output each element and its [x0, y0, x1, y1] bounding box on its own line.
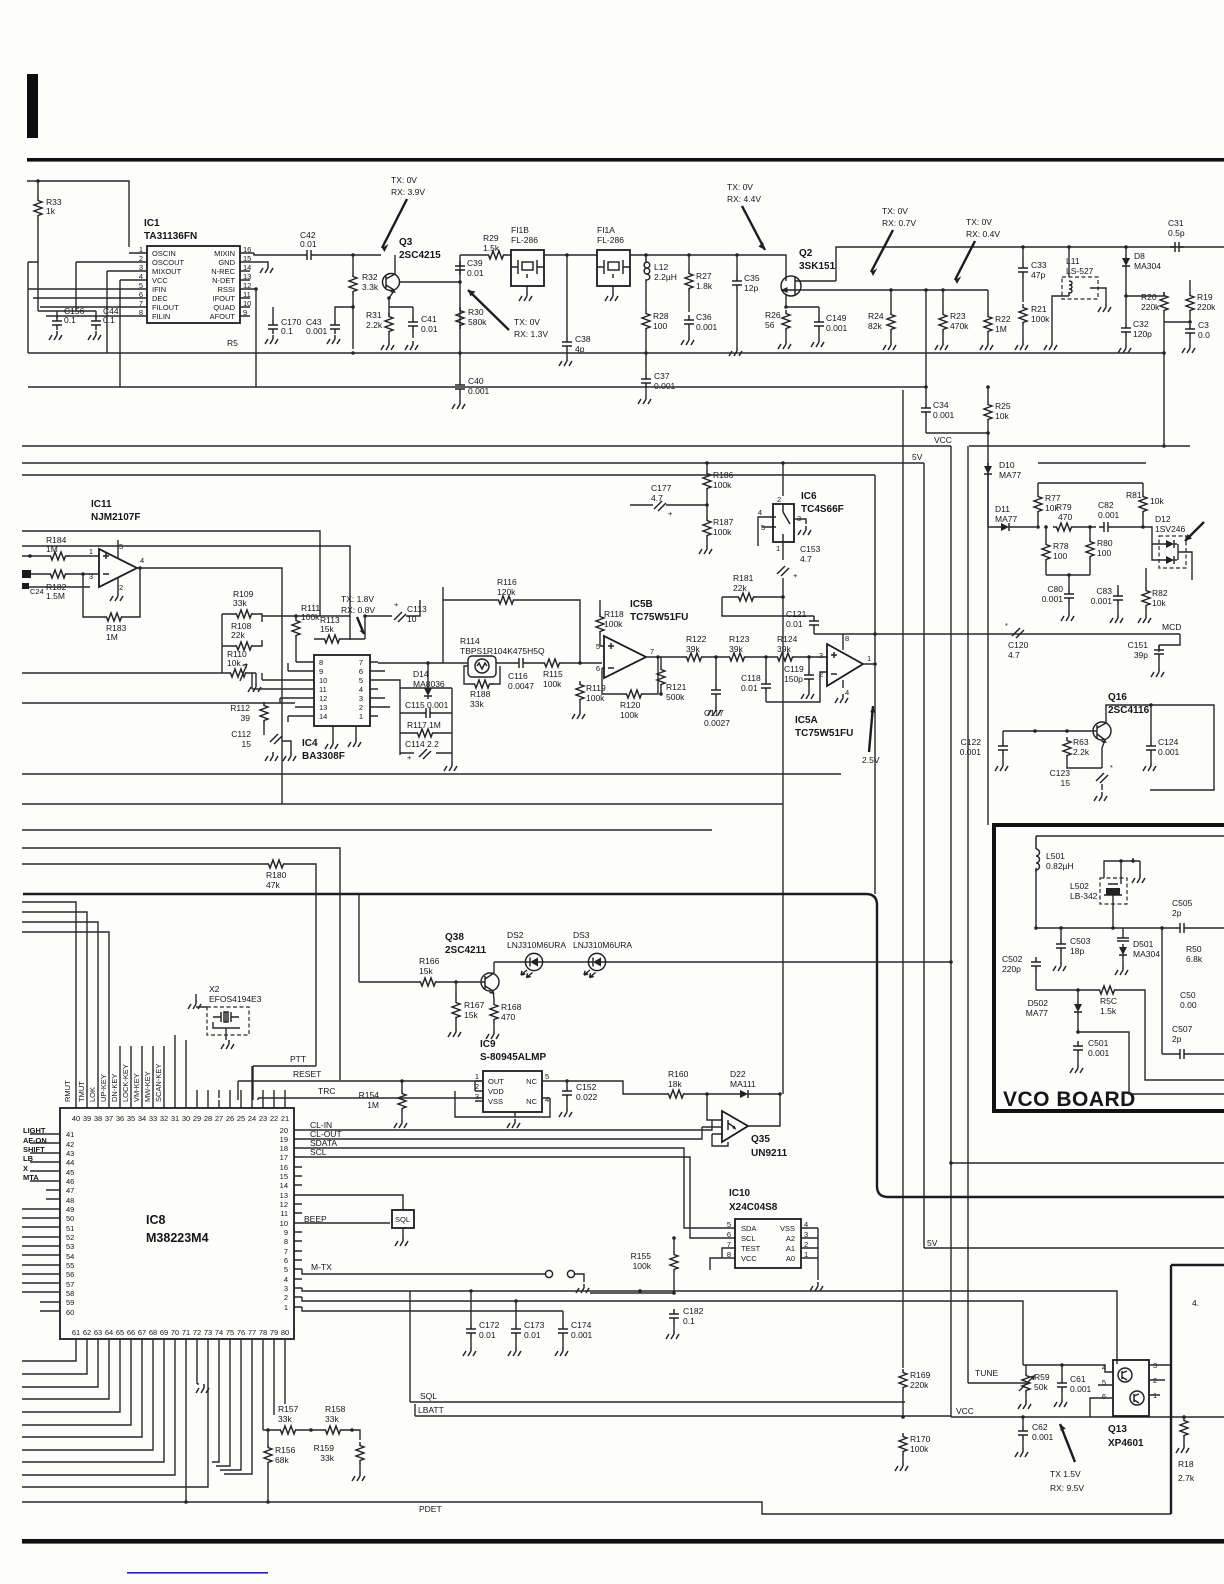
svg-text:R114: R114: [460, 636, 480, 646]
svg-text:13: 13: [280, 1191, 288, 1200]
wire IC9 out to R160: [567, 1081, 665, 1094]
svg-text:DS3: DS3: [573, 930, 590, 940]
capacitor C38: [566, 255, 568, 337]
svg-text:100k: 100k: [620, 710, 639, 720]
svg-text:2SC4215: 2SC4215: [399, 250, 441, 261]
resistor R186: [703, 470, 711, 492]
svg-text:70: 70: [171, 1328, 179, 1337]
svg-text:44: 44: [66, 1158, 74, 1167]
svg-text:4: 4: [359, 685, 363, 694]
svg-text:50k: 50k: [1034, 1382, 1048, 1392]
trimmer R59: [1022, 1372, 1030, 1394]
svg-text:LB: LB: [23, 1154, 34, 1163]
svg-text:D22: D22: [730, 1069, 746, 1079]
svg-text:3: 3: [819, 651, 823, 660]
svg-text:52: 52: [66, 1233, 74, 1242]
svg-text:Q35: Q35: [751, 1134, 770, 1145]
board edge bottom right: [1171, 1265, 1224, 1514]
capacitor C61: [1057, 1378, 1067, 1392]
svg-text:C123: C123: [1050, 768, 1071, 778]
svg-text:56: 56: [765, 320, 775, 330]
capacitor C62: [1018, 1426, 1028, 1440]
top rule: [27, 158, 1224, 162]
svg-text:22k: 22k: [231, 630, 245, 640]
capacitor C501: [1073, 1041, 1083, 1055]
capacitor C123: [1096, 773, 1108, 783]
svg-text:M-TX: M-TX: [311, 1262, 332, 1272]
ground: [49, 331, 62, 340]
svg-text:65: 65: [116, 1328, 124, 1337]
svg-text:21: 21: [281, 1114, 289, 1123]
IC1 right pin stubs: [240, 253, 262, 316]
svg-text:60: 60: [66, 1308, 74, 1317]
capacitor C35: [732, 276, 742, 290]
capacitor C43: [330, 320, 340, 334]
capacitor C149: [814, 317, 824, 331]
svg-text:0.0047: 0.0047: [508, 681, 534, 691]
svg-text:54: 54: [66, 1252, 74, 1261]
svg-text:OUT: OUT: [488, 1077, 504, 1086]
IC4 left pin wires: [252, 662, 314, 716]
capacitor C31: [1170, 242, 1184, 252]
svg-text:5: 5: [359, 676, 363, 685]
svg-text:LBATT: LBATT: [418, 1405, 444, 1415]
svg-text:NC: NC: [526, 1097, 537, 1106]
svg-text:C24: C24: [30, 587, 44, 596]
resistor R122: [683, 653, 705, 661]
svg-text:C503: C503: [1070, 936, 1091, 946]
svg-text:Q2: Q2: [799, 248, 813, 259]
vertical rail x924: [923, 463, 925, 1248]
svg-text:4: 4: [284, 1275, 288, 1284]
capacitor C156: [52, 316, 62, 330]
svg-text:0.01: 0.01: [786, 619, 803, 629]
svg-text:D502: D502: [1028, 998, 1049, 1008]
svg-text:R124: R124: [777, 634, 798, 644]
svg-text:4.7: 4.7: [800, 554, 812, 564]
svg-text:100k: 100k: [301, 612, 320, 622]
svg-text:RX: 0.7V: RX: 0.7V: [882, 218, 916, 228]
resistor R77: [1034, 493, 1042, 515]
resistor R33: [34, 197, 42, 219]
diode D22 MA111: [737, 1090, 751, 1098]
node input blobs: [22, 570, 31, 578]
svg-text:18p: 18p: [1070, 946, 1084, 956]
svg-text:10k: 10k: [227, 658, 241, 668]
svg-text:C82: C82: [1098, 500, 1114, 510]
svg-text:29: 29: [193, 1114, 201, 1123]
svg-text:120k: 120k: [497, 587, 516, 597]
svg-text:C40: C40: [468, 376, 484, 386]
svg-text:TX: 0V: TX: 0V: [727, 182, 753, 192]
svg-text:5: 5: [596, 642, 600, 651]
svg-text:VM-KEY: VM-KEY: [132, 1073, 141, 1102]
vertical rail x903: [902, 390, 904, 1368]
svg-text:X2: X2: [209, 984, 220, 994]
svg-text:37: 37: [105, 1114, 113, 1123]
wire to C507: [1078, 1032, 1224, 1094]
svg-text:39: 39: [83, 1114, 91, 1123]
svg-text:C80: C80: [1047, 584, 1063, 594]
svg-text:AF-ON: AF-ON: [23, 1136, 47, 1145]
svg-text:MCD: MCD: [1162, 622, 1181, 632]
capacitor C32: [1121, 323, 1131, 337]
svg-text:MA111: MA111: [730, 1079, 756, 1089]
svg-text:QUAD: QUAD: [213, 303, 235, 312]
svg-text:C507: C507: [1172, 1024, 1193, 1034]
black margin bar top-left: [27, 74, 38, 138]
svg-text:58: 58: [66, 1289, 74, 1298]
svg-text:EFOS4194E3: EFOS4194E3: [209, 994, 262, 1004]
svg-text:7: 7: [650, 647, 654, 656]
svg-text:69: 69: [160, 1328, 168, 1337]
resistor R167: [452, 999, 460, 1021]
resistor R81: [1139, 493, 1147, 515]
bus y864 with R180: [22, 864, 316, 1066]
inductor L12: [644, 255, 650, 284]
svg-text:R27: R27: [696, 271, 712, 281]
svg-text:67: 67: [138, 1328, 146, 1337]
svg-text:15: 15: [242, 739, 252, 749]
svg-text:10k: 10k: [1150, 496, 1164, 506]
svg-text:SCL: SCL: [741, 1234, 756, 1243]
svg-text:57: 57: [66, 1280, 74, 1289]
svg-text:2p: 2p: [1172, 1034, 1182, 1044]
svg-text:GND: GND: [218, 258, 235, 267]
capacitor C39: [455, 261, 465, 275]
svg-text:FI1A: FI1A: [597, 225, 615, 235]
svg-text:43: 43: [66, 1149, 74, 1158]
svg-text:*: *: [1110, 763, 1113, 772]
svg-text:C62: C62: [1032, 1422, 1048, 1432]
svg-text:34: 34: [138, 1114, 146, 1123]
svg-text:62: 62: [83, 1328, 91, 1337]
IC8 top pin stubs: [76, 1100, 285, 1108]
svg-text:AFOUT: AFOUT: [210, 312, 236, 321]
svg-text:100k: 100k: [543, 679, 562, 689]
svg-text:M38223M4: M38223M4: [146, 1231, 209, 1245]
svg-text:R32: R32: [362, 272, 378, 282]
svg-text:15k: 15k: [320, 624, 334, 634]
svg-text:R188: R188: [470, 689, 491, 699]
svg-text:100: 100: [653, 321, 667, 331]
svg-text:Q16: Q16: [1108, 692, 1127, 703]
svg-text:C173: C173: [524, 1320, 545, 1330]
svg-text:220p: 220p: [1002, 964, 1021, 974]
svg-text:RX: 0.4V: RX: 0.4V: [966, 229, 1000, 239]
IC8 bottom pin numbers: [72, 1328, 289, 1337]
capacitor C44: [91, 316, 101, 330]
capacitor C502: [1031, 957, 1041, 971]
svg-text:Q3: Q3: [399, 237, 413, 248]
svg-text:C115 0.001: C115 0.001: [405, 700, 449, 710]
resistor R22: [984, 313, 992, 335]
svg-text:PTT: PTT: [290, 1054, 306, 1064]
svg-text:SCL: SCL: [310, 1147, 327, 1157]
svg-text:N-REC: N-REC: [211, 267, 235, 276]
svg-text:0.001: 0.001: [826, 323, 848, 333]
svg-text:IC8: IC8: [146, 1213, 166, 1227]
svg-text:C36: C36: [696, 312, 712, 322]
resistor R160: [665, 1090, 687, 1098]
svg-text:+: +: [668, 509, 673, 518]
svg-text:27: 27: [215, 1114, 223, 1123]
svg-text:220k: 220k: [910, 1380, 929, 1390]
capacitor C172: [466, 1324, 476, 1338]
svg-text:TC75W51FU: TC75W51FU: [630, 612, 688, 623]
svg-text:1.8k: 1.8k: [696, 281, 713, 291]
VCO inner top bus: [1036, 835, 1224, 837]
ground pin15: [260, 264, 273, 273]
svg-text:TX 1.5V: TX 1.5V: [1050, 1469, 1081, 1479]
svg-text:1k: 1k: [46, 206, 56, 216]
svg-text:Q38: Q38: [445, 932, 464, 943]
wire C156/C44 top: [38, 311, 96, 318]
svg-text:9: 9: [284, 1228, 288, 1237]
svg-text:DS2: DS2: [507, 930, 524, 940]
bus line H y587: [22, 586, 90, 588]
svg-text:0.001: 0.001: [1088, 1048, 1110, 1058]
wire Q2 drain bus: [836, 247, 1224, 281]
svg-text:0.001: 0.001: [1091, 596, 1113, 606]
svg-text:VDD: VDD: [488, 1087, 504, 1096]
svg-text:0.001: 0.001: [1158, 747, 1180, 757]
svg-text:51: 51: [66, 1224, 74, 1233]
resistor R23: [939, 311, 947, 333]
resistor R157: [277, 1426, 299, 1434]
svg-text:IFOUT: IFOUT: [213, 294, 236, 303]
svg-text:4.7: 4.7: [651, 493, 663, 503]
svg-text:47: 47: [66, 1186, 74, 1195]
svg-text:LNJ310M6URA: LNJ310M6URA: [507, 940, 566, 950]
svg-text:33k: 33k: [233, 598, 247, 608]
svg-text:RSSI: RSSI: [217, 285, 235, 294]
svg-text:R180: R180: [266, 870, 287, 880]
resistor R155: [670, 1251, 678, 1273]
svg-text:SDA: SDA: [741, 1224, 756, 1233]
svg-text:C117: C117: [704, 708, 724, 718]
svg-text:R121: R121: [666, 682, 687, 692]
svg-text:R25: R25: [995, 401, 1011, 411]
svg-text:IC6: IC6: [801, 491, 817, 502]
wire Q16 base row: [1003, 730, 1097, 732]
svg-text:220k: 220k: [1197, 302, 1216, 312]
svg-text:0.001: 0.001: [1032, 1432, 1054, 1442]
svg-text:C35: C35: [744, 273, 760, 283]
resistor R30: [456, 307, 464, 329]
capacitor C112: [270, 734, 282, 744]
resistor R25: [984, 401, 992, 423]
svg-text:N-DET: N-DET: [212, 276, 235, 285]
resistor R180 47k: [265, 860, 287, 868]
svg-text:78: 78: [259, 1328, 267, 1337]
svg-text:100k: 100k: [910, 1444, 929, 1454]
IC8 top pin numbers: [72, 1114, 289, 1123]
resistor R168: [490, 1001, 498, 1023]
svg-text:7: 7: [359, 658, 363, 667]
svg-text:R116: R116: [497, 577, 517, 587]
svg-text:FL-286: FL-286: [597, 235, 624, 245]
capacitor C120: [1012, 628, 1024, 638]
svg-text:IC10: IC10: [729, 1188, 751, 1199]
svg-text:RX: 0.8V: RX: 0.8V: [341, 605, 375, 615]
bus y703 left: [22, 702, 295, 704]
svg-text:10k: 10k: [1152, 598, 1166, 608]
svg-text:R160: R160: [668, 1069, 689, 1079]
svg-text:150p: 150p: [784, 674, 803, 684]
svg-text:19: 19: [280, 1135, 288, 1144]
svg-text:VCC: VCC: [956, 1406, 974, 1416]
svg-text:4: 4: [758, 508, 762, 517]
svg-text:FILOUT: FILOUT: [152, 303, 179, 312]
svg-text:VCC: VCC: [741, 1254, 757, 1263]
resistor R183 feedback: [103, 613, 125, 621]
svg-text:R50: R50: [1186, 944, 1202, 954]
svg-text:R28: R28: [653, 311, 669, 321]
bus line C y446 VCC: [22, 445, 1190, 447]
svg-text:8: 8: [845, 634, 849, 643]
capacitor C83: [1113, 591, 1123, 605]
svg-text:MIXOUT: MIXOUT: [152, 267, 182, 276]
svg-text:R168: R168: [501, 1002, 522, 1012]
svg-text:64: 64: [105, 1328, 113, 1337]
svg-text:R81: R81: [1126, 490, 1142, 500]
top rail to Q13 pin4: [1023, 1365, 1113, 1372]
svg-text:100k: 100k: [633, 1261, 652, 1271]
svg-text:5: 5: [119, 542, 123, 551]
svg-text:R79: R79: [1056, 502, 1072, 512]
svg-text:R82: R82: [1152, 588, 1168, 598]
svg-text:+: +: [407, 753, 412, 762]
svg-text:R78: R78: [1053, 541, 1069, 551]
svg-text:R158: R158: [325, 1404, 346, 1414]
resistor R63: [1063, 737, 1071, 759]
svg-text:5: 5: [727, 1220, 731, 1229]
svg-text:SQL: SQL: [420, 1391, 437, 1401]
svg-text:MA77: MA77: [1026, 1008, 1048, 1018]
capacitor C170: [268, 320, 278, 334]
svg-text:32: 32: [160, 1114, 168, 1123]
varactor D501 MA304: [1117, 938, 1129, 941]
svg-text:C61: C61: [1070, 1374, 1086, 1384]
bus line F y531: [22, 531, 320, 616]
bottom rule: [22, 1539, 1224, 1544]
svg-text:3: 3: [475, 1092, 479, 1101]
resistor R32: [349, 273, 357, 295]
svg-text:82k: 82k: [868, 321, 882, 331]
resistor R28: [642, 310, 650, 332]
svg-text:R18: R18: [1178, 1459, 1194, 1469]
net pin78 to R157: [263, 1339, 285, 1430]
resistor R112: [260, 702, 268, 724]
svg-text:63: 63: [94, 1328, 102, 1337]
diode D502 MA77: [1074, 1001, 1082, 1015]
node RSSI junction: [254, 287, 258, 291]
svg-text:D501: D501: [1133, 939, 1154, 949]
svg-text:TC75W51FU: TC75W51FU: [795, 728, 853, 739]
svg-text:MA304: MA304: [1134, 261, 1161, 271]
top rail 483: [1038, 482, 1143, 484]
svg-text:33k: 33k: [320, 1453, 334, 1463]
IC4 BA3308F: [314, 655, 370, 726]
svg-text:RX: 4.4V: RX: 4.4V: [727, 194, 761, 204]
resistor R78: [1042, 541, 1050, 563]
svg-text:15k: 15k: [464, 1010, 478, 1020]
svg-text:26: 26: [226, 1114, 234, 1123]
sub-network rails: [400, 688, 452, 762]
svg-text:2: 2: [119, 583, 123, 592]
svg-text:75: 75: [226, 1328, 234, 1337]
svg-text:C33: C33: [1031, 260, 1047, 270]
svg-text:MW-KEY: MW-KEY: [143, 1071, 152, 1102]
svg-text:39k: 39k: [729, 644, 743, 654]
vertical from thick bus to R166: [358, 894, 360, 982]
svg-text:5: 5: [545, 1072, 549, 1081]
svg-text:VSS: VSS: [488, 1097, 503, 1106]
resistor R115: [541, 659, 563, 667]
svg-text:2: 2: [359, 703, 363, 712]
svg-text:R155: R155: [631, 1251, 652, 1261]
resistor R113: [321, 635, 343, 643]
wire top-left entry: [27, 181, 129, 247]
svg-text:TX: 0V: TX: 0V: [882, 206, 908, 216]
svg-text:0.0027: 0.0027: [704, 718, 730, 728]
emitter network wire: [389, 307, 413, 315]
svg-text:2.5V: 2.5V: [862, 755, 880, 765]
svg-text:TUNE: TUNE: [975, 1368, 998, 1378]
resistor R117: [414, 729, 436, 737]
svg-text:LS-527: LS-527: [1066, 266, 1094, 276]
svg-text:R117 1M: R117 1M: [407, 720, 441, 730]
svg-text:77: 77: [248, 1328, 256, 1337]
transistor Q13 XP4601: [1113, 1360, 1149, 1416]
svg-text:C121: C121: [786, 609, 807, 619]
svg-text:0.001: 0.001: [654, 381, 676, 391]
svg-text:C38: C38: [575, 334, 591, 344]
capacitor C177: [654, 501, 666, 511]
resistor R26: [782, 310, 790, 332]
svg-text:SQL: SQL: [395, 1215, 410, 1224]
svg-text:UP-KEY: UP-KEY: [99, 1074, 108, 1102]
svg-text:MA304: MA304: [1133, 949, 1160, 959]
resistor R188: [471, 680, 493, 688]
svg-text:R30: R30: [468, 307, 484, 317]
svg-text:+: +: [793, 571, 798, 580]
svg-text:R22: R22: [995, 314, 1011, 324]
svg-text:5: 5: [284, 1265, 288, 1274]
svg-text:MA77: MA77: [995, 514, 1017, 524]
SQL box: [392, 1210, 414, 1228]
svg-text:R19: R19: [1197, 292, 1213, 302]
svg-text:2SC4116: 2SC4116: [1108, 705, 1150, 716]
bus y804: [22, 803, 783, 805]
svg-text:48: 48: [66, 1196, 74, 1205]
svg-text:1: 1: [867, 654, 871, 663]
svg-text:R186: R186: [713, 470, 734, 480]
svg-text:VCO BOARD: VCO BOARD: [1003, 1088, 1136, 1111]
svg-text:0.0: 0.0: [1198, 330, 1210, 340]
svg-text:C501: C501: [1088, 1038, 1109, 1048]
svg-text:1M: 1M: [367, 1100, 379, 1110]
svg-text:59: 59: [66, 1298, 74, 1307]
net right y1163: [951, 1162, 1224, 1164]
svg-text:VSS: VSS: [780, 1224, 795, 1233]
svg-text:L502: L502: [1070, 881, 1089, 891]
svg-text:R115: R115: [543, 669, 563, 679]
svg-text:LOCK-KEY: LOCK-KEY: [121, 1064, 130, 1102]
vertical rail x968: [967, 446, 969, 1383]
svg-text:R154: R154: [359, 1090, 380, 1100]
